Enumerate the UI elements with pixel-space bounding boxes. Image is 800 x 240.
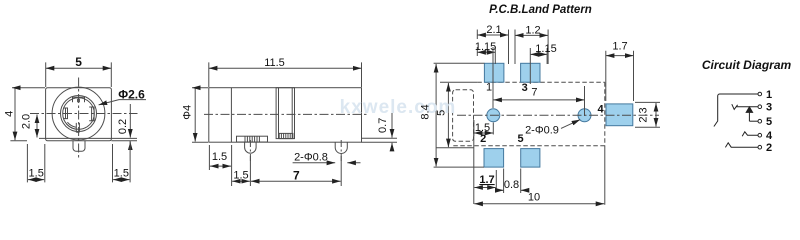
svg-text:2.0: 2.0 [21, 114, 33, 129]
left contact [63, 108, 67, 119]
dimension 1.15 right [530, 53, 547, 55]
jack ring outer [61, 96, 97, 132]
front horizontal centerline [30, 113, 138, 115]
dimension 5 top [46, 62, 112, 87]
dimension 0.2 right [129, 104, 131, 138]
svg-text:1.7: 1.7 [479, 174, 494, 186]
side inner vertical line [230, 88, 232, 143]
svg-text:7: 7 [531, 86, 537, 98]
front view bottom step line [39, 137, 137, 139]
pad 4 [606, 104, 633, 126]
dimension 2.1 [477, 30, 508, 65]
dimension 7 pattern [584, 86, 586, 116]
terminal 3 [758, 105, 762, 109]
svg-text:1.5: 1.5 [29, 167, 44, 179]
pad 5 [521, 149, 540, 168]
side view body [209, 88, 362, 143]
triangle stem [748, 112, 750, 121]
dimension 1.7 bottom [474, 120, 497, 204]
dimension 4 left [12, 88, 45, 141]
dimension 1.5 side second and 7 [250, 156, 341, 186]
front view body [46, 88, 112, 141]
jack ring inner [63, 98, 95, 130]
dimension 2.3 [635, 102, 660, 127]
wire terminal 5 [749, 120, 758, 122]
svg-text:5: 5 [517, 133, 523, 145]
pad1 center extension [492, 47, 494, 108]
svg-text:3: 3 [766, 102, 772, 114]
svg-text:1.15: 1.15 [535, 43, 556, 55]
front bottom tab [73, 141, 85, 152]
svg-text:1: 1 [486, 81, 492, 93]
leg centerlines [250, 140, 341, 163]
terminal 5 [758, 119, 762, 123]
pad 1 [484, 63, 504, 82]
svg-text:1: 1 [766, 89, 772, 101]
dimension 1.15 left [476, 47, 478, 56]
svg-text:5: 5 [766, 116, 772, 128]
svg-text:7: 7 [293, 168, 300, 182]
dimension 1.5 bottom-left [27, 144, 44, 182]
side insert hatch box [279, 133, 293, 138]
dimension 1.5 side first [209, 145, 231, 186]
svg-text:4: 4 [4, 111, 16, 117]
svg-text:2.1: 2.1 [486, 24, 501, 36]
svg-text:2: 2 [480, 133, 486, 145]
svg-text:Φ2.6: Φ2.6 [118, 87, 145, 101]
leader 2-phi0.9 [561, 120, 580, 129]
svg-text:0.7: 0.7 [377, 118, 389, 133]
dimension phi4 [192, 88, 208, 143]
svg-text:Φ4: Φ4 [182, 105, 194, 120]
pattern outline right [604, 82, 606, 146]
wire terminal 1 [714, 94, 758, 127]
pattern outline bottom [453, 145, 605, 147]
wire terminal 4 with contact [742, 132, 758, 136]
side leg 1 [245, 142, 257, 153]
dimension 1.2 [515, 30, 548, 65]
bottom contact bar [76, 123, 79, 132]
dimension 0.7 [362, 138, 398, 142]
dimension 1.5 bottom-right [113, 141, 131, 183]
pattern outline top [440, 81, 477, 83]
wire terminal 2 with contact [725, 143, 758, 148]
front vertical centerline [78, 78, 80, 161]
svg-text:11.5: 11.5 [264, 57, 285, 69]
dimension 2.0 [36, 115, 38, 138]
terminal 1 [758, 92, 762, 96]
dimension 0.8 [504, 169, 521, 194]
svg-text:0.2: 0.2 [117, 119, 129, 134]
pattern bottom extension [436, 147, 474, 149]
jack outer circle [52, 87, 105, 140]
svg-text:2-Φ0.9: 2-Φ0.9 [525, 125, 559, 137]
hole 1 [487, 109, 500, 122]
leader 2-phi0.8 [293, 162, 336, 164]
tip contact top [73, 97, 85, 102]
wire terminal 3 with break contact [732, 104, 758, 109]
tip spring triangle [746, 107, 752, 113]
dimension 1.7 top [606, 51, 634, 101]
svg-text:4: 4 [597, 104, 604, 116]
dimension 8.4 [434, 63, 485, 167]
right contact [89, 107, 94, 121]
lower-left contact arc [66, 124, 76, 130]
dimension 11.5 [209, 62, 362, 87]
side tall insert [276, 88, 294, 139]
svg-text:1.5: 1.5 [233, 169, 248, 181]
pad 2 [484, 149, 504, 168]
side shelf [237, 136, 268, 142]
svg-text:2-Φ0.8: 2-Φ0.8 [294, 152, 328, 164]
svg-text:1.15: 1.15 [475, 41, 496, 53]
svg-text:1.5: 1.5 [212, 151, 227, 163]
svg-text:1.2: 1.2 [525, 24, 540, 36]
svg-text:1.5: 1.5 [114, 167, 129, 179]
dimension 5 pattern [447, 83, 449, 147]
phi2.6 leader [99, 100, 146, 105]
svg-text:2.3: 2.3 [638, 107, 650, 122]
front view bottom edge extension [10, 140, 137, 142]
svg-text:Circuit Diagram: Circuit Diagram [702, 58, 792, 72]
pattern notch [453, 90, 474, 142]
svg-text:3: 3 [522, 82, 528, 94]
svg-text:8.4: 8.4 [420, 104, 432, 119]
pattern centerline [457, 114, 659, 116]
side horizontal centerline [204, 113, 368, 115]
svg-text:2: 2 [766, 142, 772, 154]
side leg 2 [335, 142, 347, 153]
svg-text:10: 10 [528, 192, 540, 204]
svg-text:5: 5 [75, 55, 82, 69]
svg-text:1.7: 1.7 [612, 40, 627, 52]
terminal 4 [758, 133, 762, 137]
terminal 2 [758, 145, 762, 149]
pad 3 [521, 63, 540, 82]
svg-text:5: 5 [436, 110, 448, 116]
svg-text:4: 4 [766, 130, 773, 142]
svg-text:P.C.B.Land Pattern: P.C.B.Land Pattern [489, 4, 592, 16]
svg-text:0.8: 0.8 [504, 179, 519, 191]
hole 2 [578, 109, 591, 122]
dimension 10 [604, 146, 606, 205]
dimension 1.5 pattern [474, 120, 494, 136]
